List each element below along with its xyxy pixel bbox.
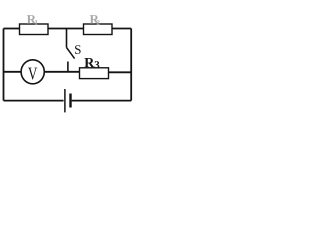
resistor R1 [20, 24, 49, 35]
wire bottom-left segment [4, 100, 64, 102]
voltmeter V [21, 60, 44, 84]
switch S upper lead [66, 29, 68, 48]
wire left vertical [3, 29, 5, 101]
wire middle-left to voltmeter [4, 71, 22, 73]
resistor R2 [84, 24, 113, 35]
wire right vertical [130, 29, 132, 101]
resistor R3 [80, 68, 109, 79]
wire top-middle segment [48, 28, 83, 30]
wire top-left segment [4, 28, 20, 30]
label S [75, 45, 81, 54]
switch S lower lead [67, 62, 69, 73]
label R2 [90, 15, 99, 24]
wire voltmeter to R3 [44, 71, 80, 73]
battery long plate [64, 89, 66, 112]
battery short plate [69, 94, 71, 108]
switch S blade [67, 48, 75, 59]
wire top-right segment [112, 28, 131, 30]
label R3 [84, 58, 94, 67]
label R1 [27, 15, 36, 24]
wire R3 to right [109, 71, 132, 73]
wire bottom-right segment [72, 100, 132, 102]
